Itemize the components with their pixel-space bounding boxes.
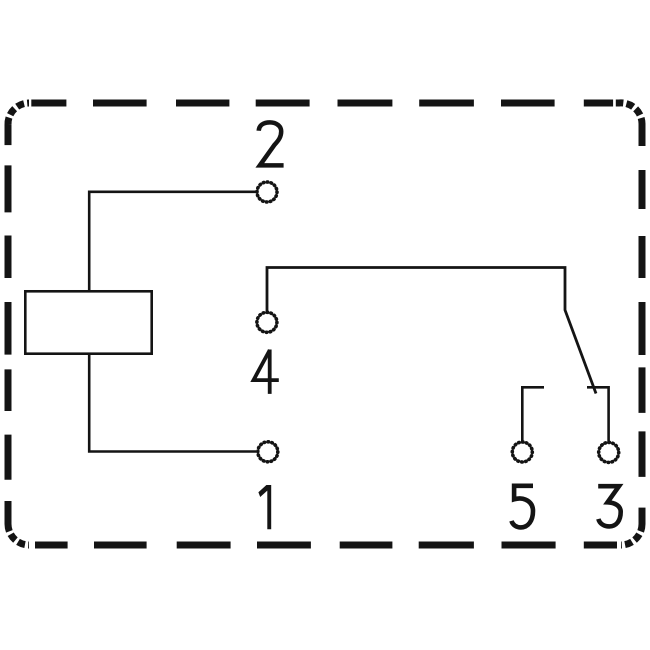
relay enclosure dashed outline: bottom edge [35,542,617,549]
wire: pin 4 riser, common feed and switch arm (movable contact) [267,268,596,394]
pin 3 terminal circle [599,442,619,462]
pin number 5 [512,486,534,528]
wire: pin 3 fixed contact bar and lead [587,387,609,442]
relay enclosure outline: top-right rounded corner [639,124,646,146]
relay enclosure dashed outline: right edge [639,170,646,477]
coil K1 [25,291,151,353]
relay enclosure dashed outline: left edge [5,165,12,479]
relay enclosure outline: top-left rounded corner [5,125,12,145]
pin 1 terminal circle [258,442,278,462]
pin 4 terminal circle [257,312,277,332]
pin number 2 [259,122,284,165]
pin number 3 [598,486,621,526]
relay enclosure outline: bottom-right rounded corner [639,508,646,524]
pin 2 terminal circle [257,182,277,202]
relay enclosure dashed outline: top edge [31,100,613,107]
pin 5 terminal circle [512,442,532,462]
pin number 4 (stem) [268,350,272,394]
wire: coil bottom to pin 1 [89,354,256,452]
wire: pin 5 fixed contact bar and lead [522,387,544,442]
pin number 4 (diagonal and crossbar) [254,350,279,380]
relay enclosure outline: bottom-left rounded corner [5,501,12,524]
wire: pin 2 to coil top [89,192,257,291]
pin number 1 [258,485,271,529]
